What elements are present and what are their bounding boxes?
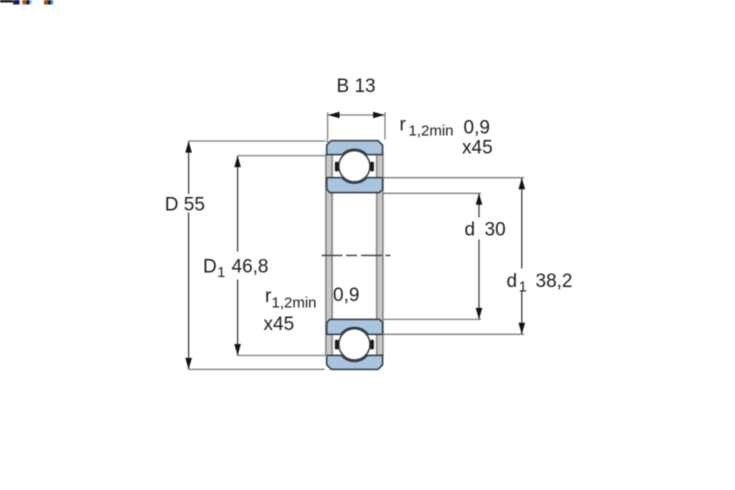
- svg-text:d: d: [507, 271, 518, 292]
- B extension left: [327, 112, 329, 144]
- svg-text:1: 1: [519, 280, 527, 296]
- d1 dimension line: [521, 178, 523, 269]
- center axis line: [322, 254, 391, 256]
- seal groove mark top-left: [335, 162, 339, 172]
- D1 arrow down: [234, 344, 241, 355]
- d top extension: [383, 192, 481, 194]
- svg-text:B 13: B 13: [337, 76, 376, 97]
- D1 arrow up: [234, 156, 241, 167]
- D1 dimension line: [237, 156, 239, 252]
- D55 arrow down: [185, 358, 192, 369]
- B dimension line: [328, 114, 385, 116]
- d1 top extension: [383, 177, 524, 179]
- ball (bottom): [339, 329, 370, 360]
- D1 top extension: [238, 155, 327, 157]
- svg-text:1,2min: 1,2min: [409, 123, 454, 140]
- svg-text:30: 30: [485, 219, 506, 240]
- d arrow up: [476, 193, 483, 204]
- D55 dimension line: [188, 141, 190, 194]
- d bottom extension: [383, 318, 481, 320]
- svg-text:D 55: D 55: [165, 195, 205, 216]
- bearing side-face lines (vertical, between sections): [327, 154, 332, 356]
- svg-text:1,2min: 1,2min: [272, 295, 317, 312]
- svg-text:r: r: [400, 115, 407, 136]
- svg-text:0,9: 0,9: [464, 117, 490, 138]
- inner ring top section: [327, 178, 383, 193]
- svg-text:0,9: 0,9: [333, 285, 359, 306]
- D1 bottom extension: [238, 355, 328, 357]
- seal groove mark bottom-left: [335, 340, 339, 350]
- d1 bottom extension: [383, 333, 524, 335]
- outer ring bottom section: [327, 355, 383, 369]
- dimension lines (dark): [189, 141, 522, 369]
- D55 top extension: [189, 140, 326, 142]
- inner ring bottom section: [327, 319, 383, 334]
- B extension right: [384, 112, 386, 139]
- ball (top): [339, 151, 370, 182]
- d dimension line: [478, 194, 480, 218]
- arrows: [185, 112, 525, 370]
- d1 arrow up: [519, 178, 526, 189]
- outer ring top section: [327, 141, 383, 155]
- svg-text:1: 1: [217, 265, 225, 281]
- seal groove mark bottom-right: [370, 340, 374, 350]
- D55 arrow up: [185, 141, 192, 152]
- d1 arrow down: [519, 323, 526, 334]
- svg-text:D: D: [203, 257, 217, 278]
- B arrow left: [328, 112, 340, 119]
- svg-text:38,2: 38,2: [536, 271, 573, 292]
- svg-text:x45: x45: [264, 314, 295, 335]
- svg-text:x45: x45: [462, 137, 493, 158]
- svg-text:d: d: [465, 219, 476, 240]
- extension lines (gray): [189, 112, 524, 369]
- svg-text:46,8: 46,8: [232, 257, 269, 278]
- D55 bottom extension: [189, 368, 325, 370]
- d arrow down: [476, 308, 483, 319]
- cropped logo fragment top-left: [0, 0, 53, 5]
- B arrow right: [373, 112, 385, 119]
- seal groove mark top-right: [370, 162, 374, 172]
